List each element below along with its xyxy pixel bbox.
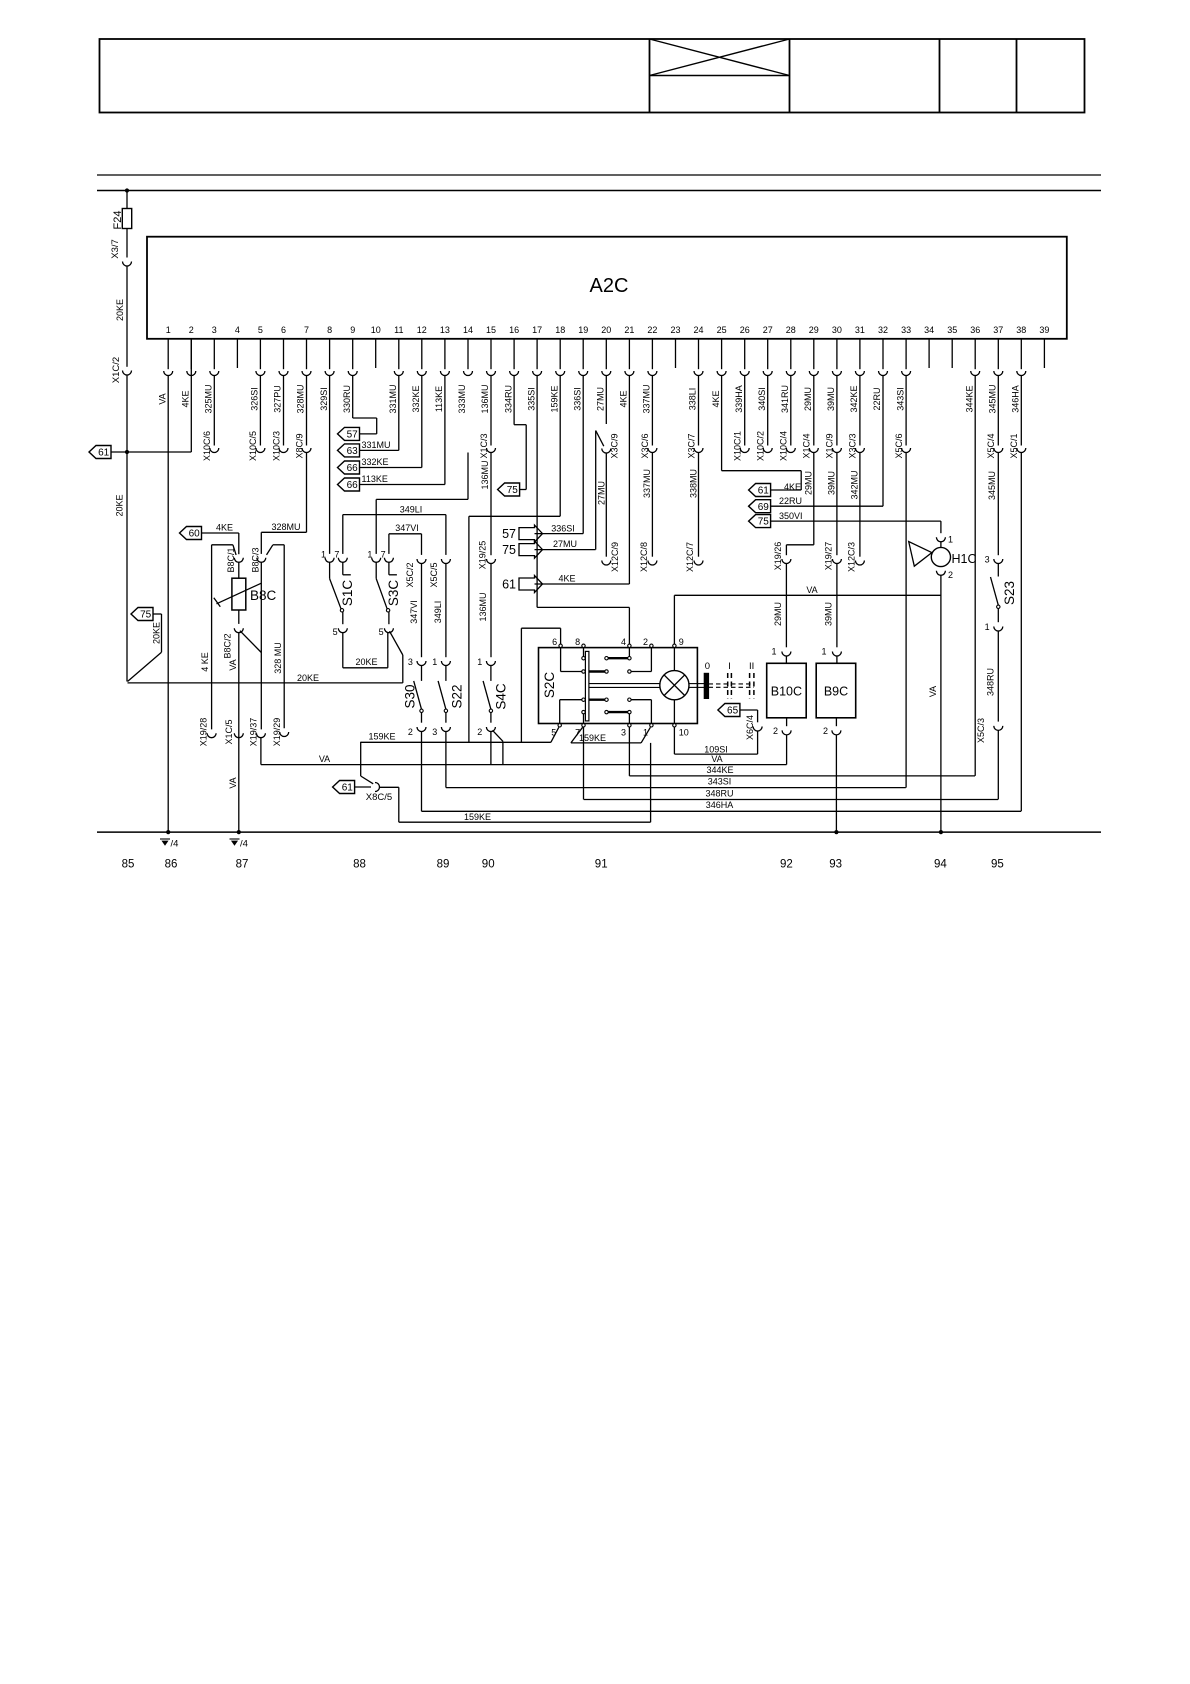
svg-text:X1C/2: X1C/2	[111, 357, 122, 383]
svg-text:2: 2	[408, 727, 413, 737]
svg-text:1: 1	[367, 550, 372, 560]
svg-text:1: 1	[166, 325, 171, 335]
svg-text:39MU: 39MU	[826, 387, 836, 411]
svg-text:X12C/9: X12C/9	[610, 542, 620, 572]
svg-text:2: 2	[189, 325, 194, 335]
svg-text:B9C: B9C	[824, 685, 848, 699]
svg-text:9: 9	[679, 637, 684, 647]
svg-text:7: 7	[304, 325, 309, 335]
svg-text:X12C/8: X12C/8	[639, 542, 649, 572]
svg-text:27: 27	[763, 325, 773, 335]
svg-text:39: 39	[1039, 325, 1049, 335]
svg-text:1: 1	[771, 647, 776, 657]
svg-text:X19/25: X19/25	[478, 541, 488, 570]
svg-text:337MU: 337MU	[642, 384, 652, 413]
svg-text:159KE: 159KE	[368, 731, 395, 741]
svg-text:B8C/2: B8C/2	[223, 633, 233, 658]
svg-text:27MU: 27MU	[596, 387, 606, 411]
svg-text:340SI: 340SI	[757, 387, 767, 411]
svg-text:B10C: B10C	[771, 685, 802, 699]
svg-text:113KE: 113KE	[434, 386, 444, 412]
svg-text:349LI: 349LI	[433, 601, 443, 624]
svg-text:75: 75	[502, 543, 516, 557]
svg-text:S4C: S4C	[494, 683, 509, 710]
svg-text:VA: VA	[157, 393, 167, 404]
svg-text:17: 17	[532, 325, 542, 335]
svg-text:336SI: 336SI	[572, 387, 582, 411]
svg-text:36: 36	[970, 325, 980, 335]
svg-text:348RU: 348RU	[705, 788, 733, 798]
svg-text:3: 3	[621, 727, 626, 737]
svg-text:X3C/9: X3C/9	[609, 433, 619, 458]
svg-text:32: 32	[878, 325, 888, 335]
svg-text:35: 35	[947, 325, 957, 335]
svg-text:342MU: 342MU	[850, 470, 860, 499]
svg-text:4KE: 4KE	[216, 523, 233, 533]
svg-text:342KE: 342KE	[849, 385, 859, 412]
svg-text:13: 13	[440, 325, 450, 335]
svg-text:1: 1	[985, 622, 990, 632]
svg-text:337MU: 337MU	[642, 469, 652, 498]
svg-text:4KE: 4KE	[558, 574, 575, 584]
svg-text:3: 3	[408, 657, 413, 667]
svg-text:1: 1	[432, 657, 437, 667]
svg-text:348RU: 348RU	[985, 668, 995, 696]
svg-text:332KE: 332KE	[362, 457, 389, 467]
svg-text:39MU: 39MU	[827, 471, 837, 495]
svg-text:X19/26: X19/26	[773, 542, 783, 571]
svg-text:12: 12	[417, 325, 427, 335]
svg-text:X19/29: X19/29	[272, 718, 282, 747]
svg-text:91: 91	[595, 859, 608, 871]
svg-text:2: 2	[823, 726, 828, 736]
svg-text:23: 23	[670, 325, 680, 335]
svg-text:66: 66	[347, 463, 359, 474]
svg-text:20KE: 20KE	[115, 299, 125, 321]
svg-text:11: 11	[394, 325, 403, 335]
svg-text:347VI: 347VI	[409, 600, 419, 624]
svg-text:21: 21	[624, 325, 634, 335]
svg-text:VA: VA	[228, 659, 238, 670]
svg-text:328MU: 328MU	[271, 522, 300, 532]
svg-text:4KE: 4KE	[619, 390, 629, 407]
svg-text:X5C/2: X5C/2	[405, 562, 415, 587]
svg-text:4KE: 4KE	[181, 390, 191, 407]
svg-text:89: 89	[437, 859, 450, 871]
svg-text:X8C/5: X8C/5	[366, 792, 392, 803]
svg-text:15: 15	[486, 325, 496, 335]
svg-text:4: 4	[235, 325, 240, 335]
svg-text:22RU: 22RU	[872, 387, 882, 410]
svg-text:VA: VA	[806, 585, 817, 595]
svg-text:X3C/3: X3C/3	[848, 433, 858, 458]
svg-text:69: 69	[758, 502, 770, 513]
svg-text:4KE: 4KE	[784, 482, 801, 492]
svg-text:339HA: 339HA	[734, 385, 744, 413]
svg-text:9: 9	[350, 325, 355, 335]
svg-text:1: 1	[321, 550, 326, 560]
svg-text:6: 6	[552, 637, 557, 647]
svg-text:X19/27: X19/27	[823, 542, 833, 571]
svg-text:159KE: 159KE	[549, 385, 559, 412]
svg-text:333MU: 333MU	[457, 384, 467, 413]
svg-text:63: 63	[347, 446, 359, 457]
svg-text:343SI: 343SI	[708, 777, 732, 787]
svg-text:343SI: 343SI	[895, 387, 905, 411]
svg-text:61: 61	[502, 577, 516, 591]
svg-text:20KE: 20KE	[355, 657, 377, 667]
svg-text:336SI: 336SI	[551, 523, 575, 533]
svg-text:3: 3	[432, 727, 437, 737]
svg-text:7: 7	[381, 550, 386, 560]
svg-text:X5C/4: X5C/4	[986, 433, 996, 458]
svg-text:X10C/4: X10C/4	[779, 431, 789, 461]
svg-text:86: 86	[165, 859, 178, 871]
svg-text:/4: /4	[240, 839, 248, 850]
svg-text:10: 10	[371, 325, 381, 335]
svg-text:29: 29	[809, 325, 819, 335]
svg-text:0: 0	[705, 661, 710, 672]
svg-text:341RU: 341RU	[780, 385, 790, 413]
svg-text:S30: S30	[402, 684, 417, 708]
svg-text:1: 1	[948, 535, 953, 545]
svg-text:113KE: 113KE	[362, 474, 388, 484]
svg-text:25: 25	[717, 325, 727, 335]
svg-text:90: 90	[482, 859, 495, 871]
svg-text:27MU: 27MU	[596, 481, 606, 505]
svg-text:93: 93	[829, 859, 842, 871]
svg-text:61: 61	[342, 783, 354, 794]
svg-text:5: 5	[333, 627, 338, 637]
svg-text:18: 18	[555, 325, 565, 335]
svg-text:335SI: 335SI	[526, 387, 536, 411]
svg-text:329SI: 329SI	[319, 387, 329, 411]
svg-text:16: 16	[509, 325, 519, 335]
svg-text:22: 22	[647, 325, 657, 335]
svg-text:X3C/6: X3C/6	[640, 433, 650, 458]
svg-text:57: 57	[347, 430, 359, 441]
svg-text:X3C/7: X3C/7	[686, 433, 696, 458]
svg-text:14: 14	[463, 325, 473, 335]
svg-text:II: II	[749, 661, 754, 672]
svg-text:VA: VA	[711, 754, 722, 764]
svg-text:X10C/1: X10C/1	[733, 431, 743, 461]
svg-text:328MU: 328MU	[296, 384, 306, 413]
svg-text:VA: VA	[928, 686, 938, 697]
svg-text:60: 60	[189, 529, 201, 540]
svg-text:330RU: 330RU	[342, 385, 352, 413]
svg-text:345MU: 345MU	[987, 471, 997, 500]
svg-text:75: 75	[140, 610, 152, 621]
svg-text:31: 31	[855, 325, 865, 335]
svg-text:2: 2	[643, 637, 648, 647]
svg-text:94: 94	[934, 859, 947, 871]
svg-text:66: 66	[347, 480, 359, 491]
svg-text:X10C/5: X10C/5	[248, 431, 258, 461]
svg-text:H1C: H1C	[952, 552, 977, 566]
svg-text:61: 61	[758, 486, 770, 497]
svg-text:10: 10	[679, 727, 689, 737]
svg-text:30: 30	[832, 325, 842, 335]
svg-text:338MU: 338MU	[688, 469, 698, 498]
svg-text:X8C/9: X8C/9	[294, 433, 304, 458]
svg-text:29MU: 29MU	[803, 387, 813, 411]
svg-text:A2C: A2C	[590, 275, 629, 297]
svg-text:20KE: 20KE	[297, 673, 319, 683]
svg-text:S3C: S3C	[386, 580, 401, 607]
svg-text:3: 3	[985, 555, 990, 565]
svg-text:2: 2	[773, 726, 778, 736]
svg-text:4 KE: 4 KE	[200, 652, 210, 672]
svg-text:X5C/6: X5C/6	[894, 433, 904, 458]
svg-text:B8C: B8C	[250, 588, 277, 603]
svg-text:27MU: 27MU	[553, 539, 577, 549]
svg-text:92: 92	[780, 859, 793, 871]
svg-text:75: 75	[758, 517, 770, 528]
svg-text:38: 38	[1016, 325, 1026, 335]
svg-text:S2C: S2C	[542, 672, 557, 699]
svg-text:136MU: 136MU	[478, 592, 488, 621]
svg-text:3: 3	[212, 325, 217, 335]
svg-text:5: 5	[258, 325, 263, 335]
svg-text:X19/28: X19/28	[199, 718, 209, 747]
svg-text:328 MU: 328 MU	[273, 642, 283, 674]
svg-text:87: 87	[236, 859, 249, 871]
svg-text:332KE: 332KE	[411, 385, 421, 412]
svg-text:F24: F24	[112, 211, 124, 230]
svg-text:B8C/3: B8C/3	[250, 547, 260, 572]
svg-text:S22: S22	[450, 684, 465, 708]
svg-text:159KE: 159KE	[464, 812, 491, 822]
svg-text:X12C/3: X12C/3	[846, 542, 856, 572]
svg-text:95: 95	[991, 859, 1004, 871]
svg-text:4KE: 4KE	[711, 390, 721, 407]
svg-text:7: 7	[334, 550, 339, 560]
svg-text:24: 24	[693, 325, 703, 335]
svg-text:29MU: 29MU	[773, 602, 783, 626]
svg-text:2: 2	[477, 727, 482, 737]
svg-text:5: 5	[379, 627, 384, 637]
svg-text:345MU: 345MU	[988, 384, 998, 413]
svg-text:136MU: 136MU	[480, 384, 490, 413]
svg-text:344KE: 344KE	[964, 385, 974, 412]
svg-text:X10C/3: X10C/3	[271, 431, 281, 461]
svg-text:37: 37	[993, 325, 1003, 335]
svg-text:28: 28	[786, 325, 796, 335]
svg-text:350VI: 350VI	[779, 511, 803, 521]
svg-text:109SI: 109SI	[704, 744, 728, 754]
svg-text:S1C: S1C	[340, 580, 355, 607]
svg-text:20: 20	[601, 325, 611, 335]
svg-text:X10C/2: X10C/2	[756, 431, 766, 461]
svg-text:326SI: 326SI	[250, 387, 260, 411]
svg-text:X1C/5: X1C/5	[224, 719, 234, 744]
svg-text:34: 34	[924, 325, 934, 335]
svg-text:39MU: 39MU	[824, 602, 834, 626]
svg-text:65: 65	[727, 706, 739, 717]
svg-text:61: 61	[98, 448, 110, 459]
svg-text:1: 1	[821, 647, 826, 657]
svg-text:1: 1	[477, 657, 482, 667]
svg-text:347VI: 347VI	[395, 523, 419, 533]
svg-text:331MU: 331MU	[388, 384, 398, 413]
svg-text:X1C/9: X1C/9	[825, 433, 835, 458]
svg-text:334RU: 334RU	[503, 385, 513, 413]
svg-text:325MU: 325MU	[204, 384, 214, 413]
svg-text:85: 85	[122, 859, 135, 871]
svg-text:X10C/6: X10C/6	[202, 431, 212, 461]
svg-text:136MU: 136MU	[480, 460, 490, 489]
svg-text:344KE: 344KE	[706, 765, 733, 775]
svg-text:8: 8	[575, 637, 580, 647]
svg-text:29MU: 29MU	[804, 471, 814, 495]
svg-text:331MU: 331MU	[362, 440, 391, 450]
svg-text:20KE: 20KE	[152, 622, 162, 644]
svg-text:19: 19	[578, 325, 588, 335]
svg-text:327PU: 327PU	[273, 385, 283, 413]
svg-text:VA: VA	[228, 777, 238, 788]
svg-text:/4: /4	[171, 839, 179, 850]
svg-text:6: 6	[281, 325, 286, 335]
svg-text:22RU: 22RU	[779, 496, 802, 506]
svg-text:2: 2	[948, 570, 953, 580]
svg-text:33: 33	[901, 325, 911, 335]
svg-text:X1C/4: X1C/4	[802, 433, 812, 458]
svg-text:S23: S23	[1002, 581, 1017, 605]
svg-text:I: I	[728, 661, 731, 672]
svg-text:57: 57	[502, 527, 516, 541]
svg-text:75: 75	[507, 485, 519, 496]
svg-text:346HA: 346HA	[1011, 385, 1021, 413]
svg-text:X5C/1: X5C/1	[1009, 433, 1019, 458]
svg-text:X6C/4: X6C/4	[745, 715, 755, 740]
svg-text:20KE: 20KE	[115, 494, 125, 516]
svg-text:349LI: 349LI	[400, 504, 423, 514]
svg-text:346HA: 346HA	[706, 800, 734, 810]
svg-text:X12C/7: X12C/7	[685, 542, 695, 572]
svg-text:26: 26	[740, 325, 750, 335]
svg-text:338LI: 338LI	[688, 388, 698, 411]
svg-text:8: 8	[327, 325, 332, 335]
svg-text:X1C/3: X1C/3	[479, 433, 489, 458]
svg-text:4: 4	[621, 637, 626, 647]
svg-text:X19/37: X19/37	[248, 718, 258, 747]
svg-text:88: 88	[353, 859, 366, 871]
svg-text:VA: VA	[319, 754, 330, 764]
svg-text:X3/7: X3/7	[110, 239, 121, 259]
svg-text:X5C/5: X5C/5	[429, 562, 439, 587]
svg-text:X5C/3: X5C/3	[976, 718, 986, 743]
